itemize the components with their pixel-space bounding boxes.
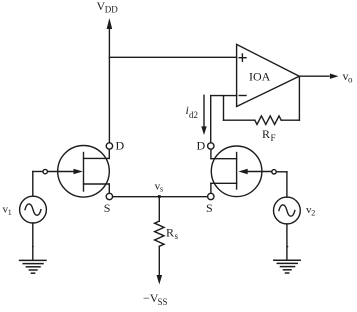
svg-text:D: D [116, 138, 125, 152]
svg-text:R: R [262, 127, 270, 141]
svg-text:−V: −V [143, 291, 159, 305]
svg-text:2: 2 [311, 209, 315, 218]
svg-text:1: 1 [8, 208, 12, 217]
svg-text:F: F [271, 133, 276, 143]
svg-text:D: D [197, 139, 206, 153]
svg-text:DD: DD [105, 5, 118, 15]
svg-text:SS: SS [158, 297, 168, 307]
svg-text:IOA: IOA [249, 70, 271, 84]
svg-text:S: S [206, 201, 213, 215]
svg-text:R: R [166, 226, 174, 240]
svg-text:d2: d2 [189, 110, 198, 120]
svg-text:S: S [104, 201, 111, 215]
svg-text:o: o [348, 74, 353, 84]
svg-text:s: s [175, 231, 179, 241]
svg-text:s: s [160, 185, 163, 194]
